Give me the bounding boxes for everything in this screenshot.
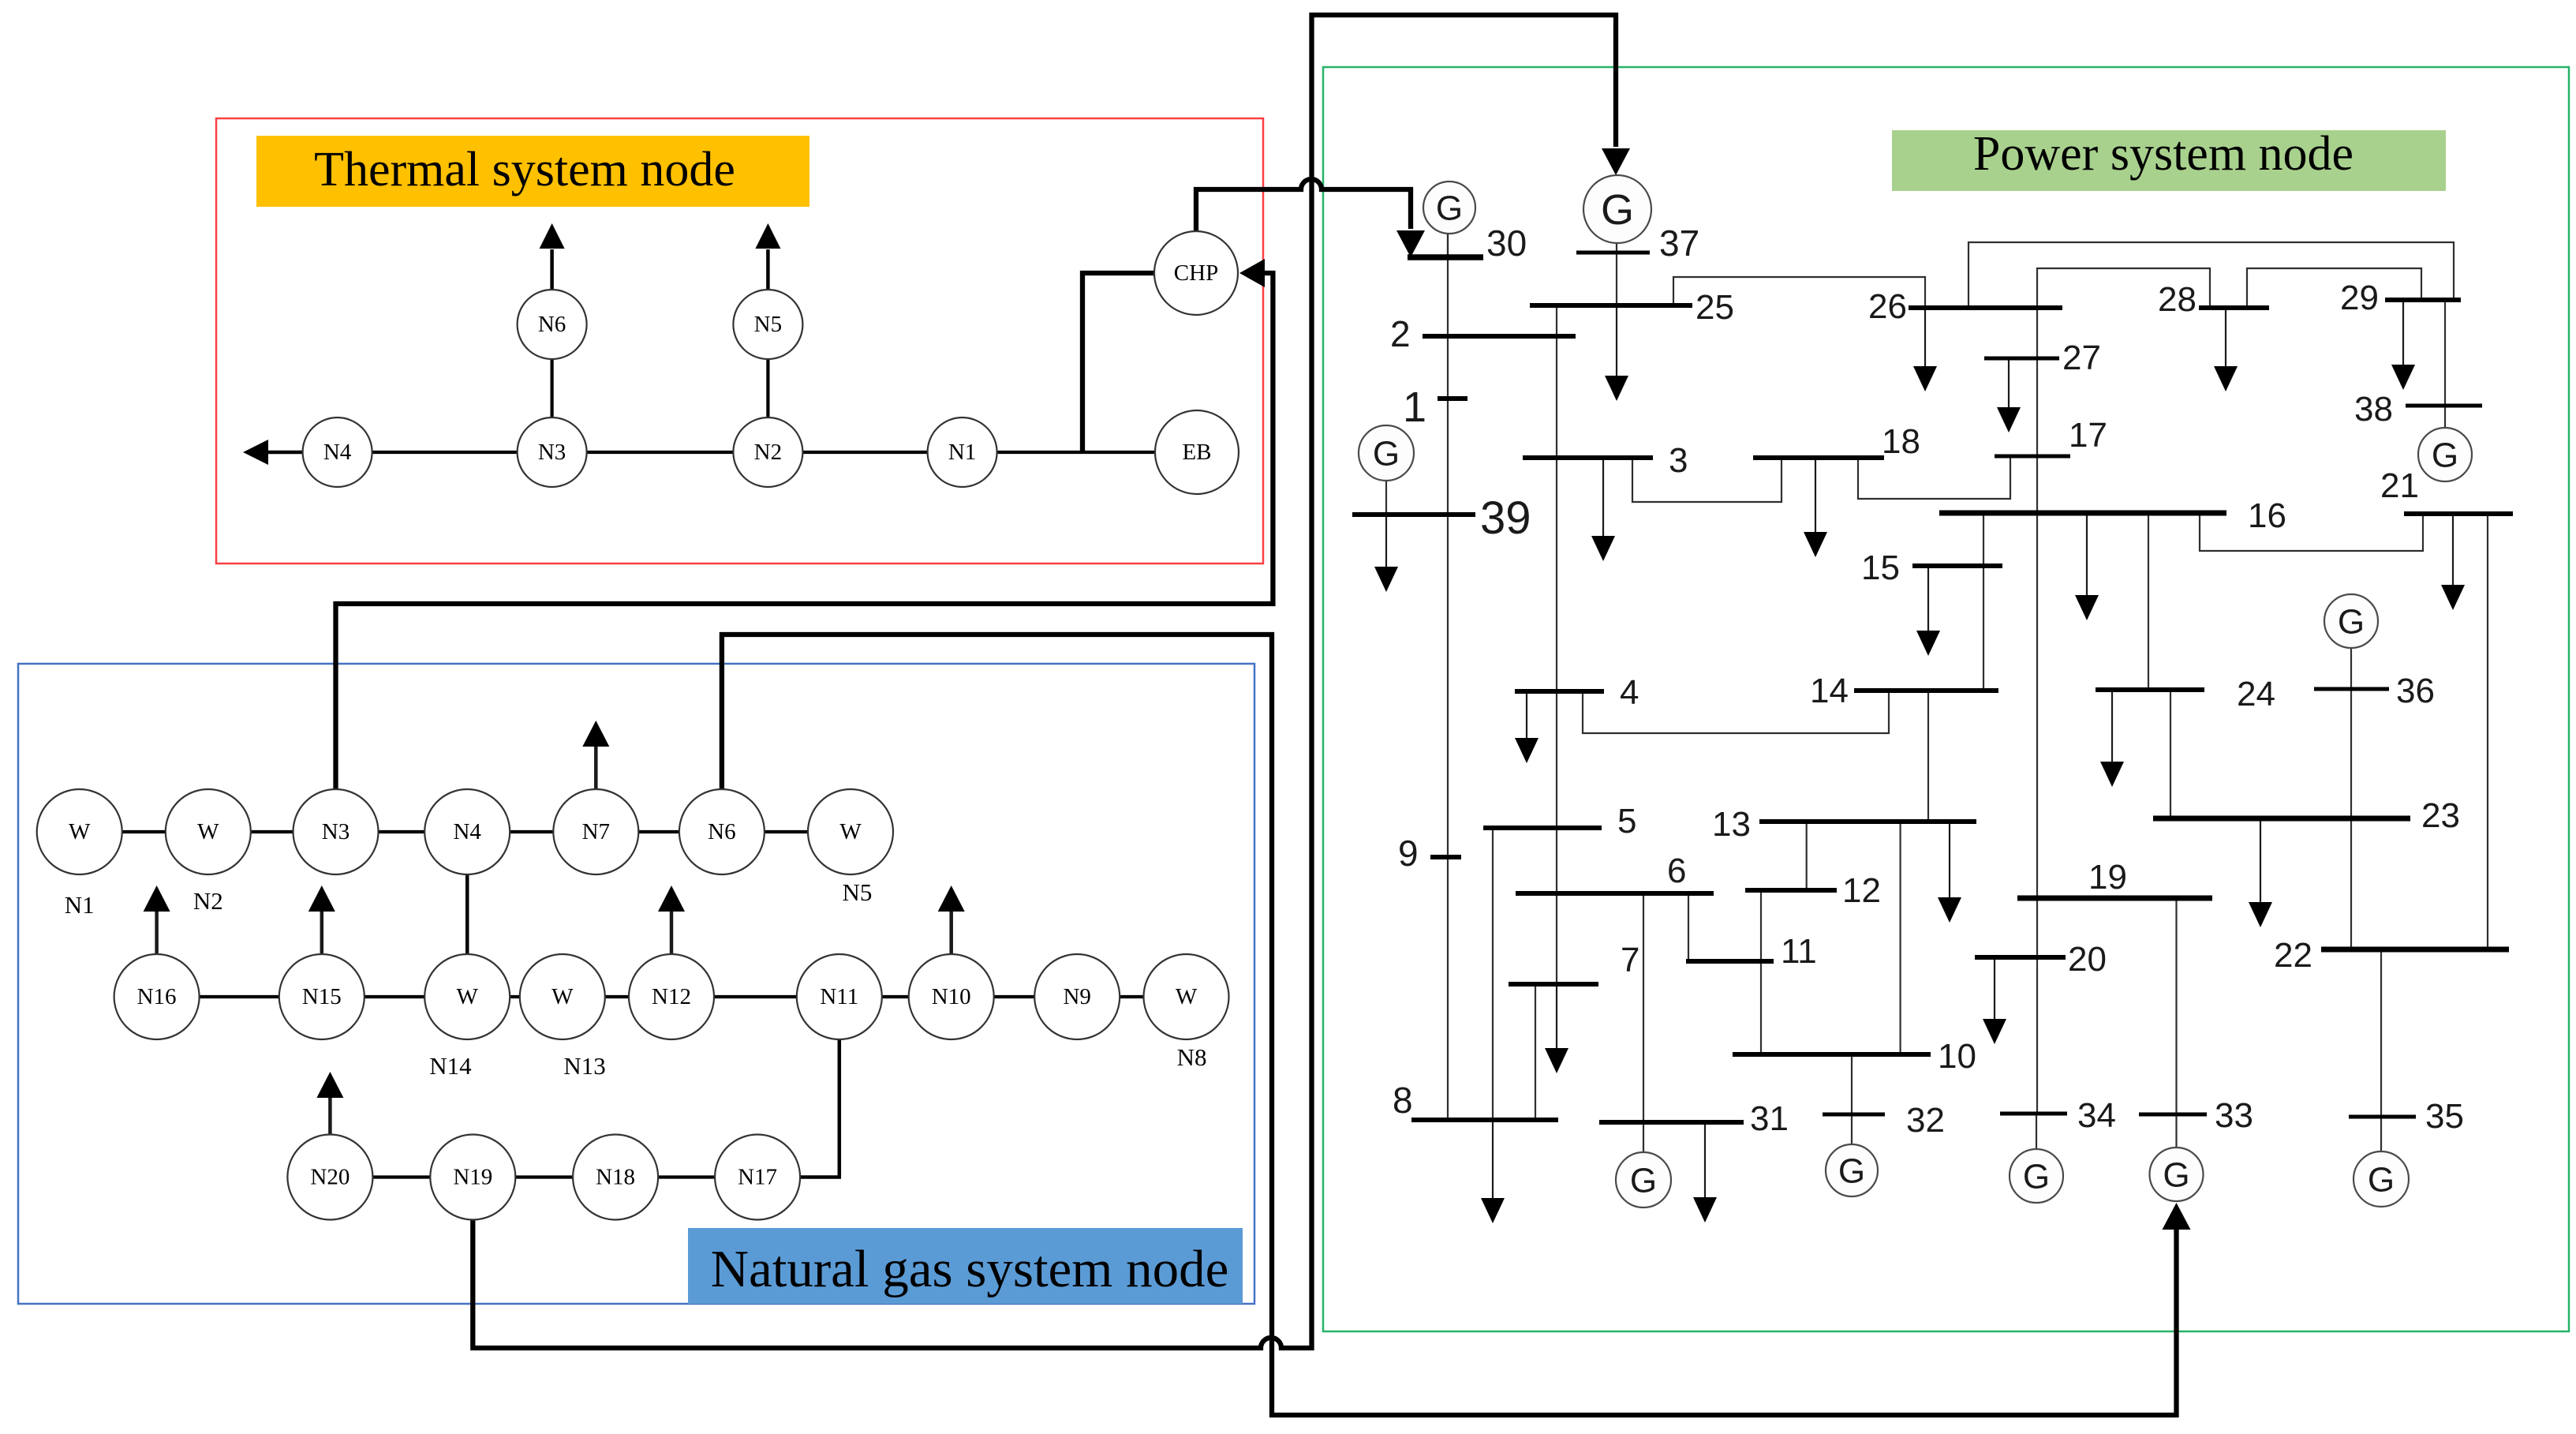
thermal system boundary box (red) xyxy=(216,118,1263,563)
gas node N10 xyxy=(909,954,994,1039)
svg-text:5: 5 xyxy=(1617,802,1636,841)
svg-text:21: 21 xyxy=(2380,466,2419,505)
svg-text:27: 27 xyxy=(2062,339,2101,377)
bus 8 bar xyxy=(1411,1118,1558,1122)
gas well W (N13) xyxy=(520,954,605,1039)
bus 27 bar xyxy=(1984,357,2059,361)
bus 39 bar xyxy=(1352,512,1475,517)
svg-text:31: 31 xyxy=(1750,1099,1789,1138)
svg-text:33: 33 xyxy=(2215,1096,2253,1135)
gas well W (N1) xyxy=(37,789,122,874)
svg-text:N4: N4 xyxy=(323,440,352,465)
svg-text:CHP: CHP xyxy=(1174,260,1218,286)
power line 23-24 vertical xyxy=(2170,690,2171,818)
svg-text:N9: N9 xyxy=(1063,984,1090,1009)
bus 6 bar xyxy=(1516,891,1714,896)
bus 16 bar xyxy=(1939,511,2226,516)
power line 28-29 loop xyxy=(2247,268,2421,308)
bus 37 bar xyxy=(1576,251,1650,255)
load arrow below bus 8 xyxy=(1492,1120,1494,1200)
bus 21 bar xyxy=(2404,511,2513,516)
thermal node N1 xyxy=(928,417,997,487)
gas pipe row3 N20-N19-N18-N17 xyxy=(330,1175,757,1178)
load arrow below bus 15 xyxy=(1927,566,1929,632)
svg-text:8: 8 xyxy=(1393,1080,1413,1121)
bus 30 bar xyxy=(1408,254,1483,260)
arrowhead into bus 30 xyxy=(1396,230,1425,257)
generator stub to G34 xyxy=(2036,1114,2037,1149)
thermal node N5 xyxy=(733,290,802,359)
bus 22 bar xyxy=(2321,947,2509,953)
bus 25 bar xyxy=(1530,303,1692,308)
gas node N9 xyxy=(1034,954,1120,1039)
svg-text:N7: N7 xyxy=(582,819,610,844)
power line 26-29 loop xyxy=(1968,242,2454,308)
svg-text:N16: N16 xyxy=(137,984,177,1009)
load arrow below bus 27 xyxy=(2008,358,2010,409)
bus 36 bar xyxy=(2314,687,2389,691)
generator G at bus 32 xyxy=(1826,1144,1878,1196)
power line 13-12 vertical xyxy=(1806,822,1808,890)
svg-text:9: 9 xyxy=(1398,833,1419,874)
svg-text:13: 13 xyxy=(1712,805,1751,844)
power line 22-35-G35 vertical xyxy=(2380,949,2382,1151)
heat output arrow left of N4 xyxy=(268,451,303,455)
gas node N12 xyxy=(629,954,714,1039)
power line 26-28 loop xyxy=(2037,268,2210,308)
load arrow below bus 3 xyxy=(1602,458,1604,537)
gas pipe row2 N16-N15-W-W-N12-N11-N10-N9-W xyxy=(157,995,1187,998)
bus 29 bar xyxy=(2385,298,2461,302)
power line 26-27-17-16-19-20-34 vertical xyxy=(2036,308,2038,1114)
svg-text:G: G xyxy=(1601,186,1634,234)
svg-text:N3: N3 xyxy=(322,819,350,844)
svg-text:N1: N1 xyxy=(948,440,976,465)
power line 16-21 loop xyxy=(2200,513,2423,551)
arrowhead into CHP xyxy=(1239,259,1265,287)
bus 26 bar xyxy=(1909,305,2062,310)
svg-text:25: 25 xyxy=(1696,288,1734,327)
svg-text:30: 30 xyxy=(1486,223,1527,264)
svg-text:G: G xyxy=(2163,1156,2189,1195)
bus 10 bar xyxy=(1733,1052,1931,1057)
svg-text:N2: N2 xyxy=(193,887,223,915)
bus 2 bar xyxy=(1423,334,1576,339)
gas demand arrow above N20 xyxy=(328,1096,332,1135)
bus 17 bar xyxy=(1995,455,2070,459)
load arrow below bus 25 xyxy=(1616,304,1617,377)
power line 3-18 loop xyxy=(1632,458,1782,502)
generator G at bus 31 xyxy=(1616,1152,1671,1207)
load arrow below bus 21 xyxy=(2452,514,2454,586)
svg-text:12: 12 xyxy=(1842,871,1881,910)
power line 25-2-3-4-5-6-7 vertical with load below 7 xyxy=(1556,304,1557,984)
load arrow below bus 16 xyxy=(2086,513,2088,597)
power line 10-32-G32 vertical xyxy=(1851,1054,1853,1144)
gas demand arrow above N15 xyxy=(320,910,324,954)
svg-text:N1: N1 xyxy=(65,891,95,919)
svg-text:7: 7 xyxy=(1621,941,1639,979)
load arrow below bus 20 xyxy=(1994,957,1995,1020)
thermal pipe N2-N5 xyxy=(766,360,769,417)
gas node N17 xyxy=(715,1135,800,1220)
electric boiler EB xyxy=(1155,410,1239,494)
load arrow below bus 24 xyxy=(2111,690,2113,763)
svg-text:36: 36 xyxy=(2396,672,2435,710)
thermal pipe N3-N6 xyxy=(550,360,553,417)
svg-text:34: 34 xyxy=(2077,1096,2116,1135)
bus 19 bar xyxy=(2017,896,2212,901)
load arrow below bus 23 xyxy=(2260,818,2261,904)
load arrow below bus 26 xyxy=(1924,308,1926,368)
svg-text:22: 22 xyxy=(2274,936,2312,975)
svg-text:G: G xyxy=(2368,1161,2395,1200)
bus 5 bar xyxy=(1483,826,1602,830)
svg-text:14: 14 xyxy=(1810,672,1849,710)
bus 1 bar xyxy=(1438,396,1467,401)
power system title label xyxy=(1892,130,2446,191)
svg-text:W: W xyxy=(457,984,479,1009)
thermal node N2 xyxy=(733,417,802,487)
svg-text:24: 24 xyxy=(2237,675,2275,713)
power line 7-8 vertical xyxy=(1535,984,1536,1120)
svg-text:10: 10 xyxy=(1938,1037,1976,1076)
svg-text:N18: N18 xyxy=(596,1165,635,1190)
generator G at bus 30 xyxy=(1423,182,1475,234)
bus 35 bar xyxy=(2349,1115,2416,1119)
load arrow below bus 4 xyxy=(1526,691,1527,739)
power line 37-25 with load below 25 xyxy=(1616,253,1617,304)
bus 9 bar xyxy=(1430,855,1461,859)
svg-text:Natural gas system node: Natural gas system node xyxy=(711,1240,1229,1298)
stub G30 to bus 30 xyxy=(1447,234,1449,257)
svg-text:N20: N20 xyxy=(310,1165,350,1190)
svg-text:N15: N15 xyxy=(302,984,342,1009)
gas pipe N4-W14 xyxy=(465,874,469,954)
svg-text:39: 39 xyxy=(1480,492,1531,544)
svg-text:N3: N3 xyxy=(538,440,566,465)
bus 15 bar xyxy=(1912,563,2002,568)
arrowhead into G33 xyxy=(2163,1203,2191,1230)
svg-text:N5: N5 xyxy=(754,312,782,337)
svg-text:3: 3 xyxy=(1669,441,1688,480)
power line G36-36-23-22 vertical xyxy=(2350,648,2352,949)
heat load arrow above N6 xyxy=(550,249,554,290)
svg-text:W: W xyxy=(69,819,91,844)
bus 3 bar xyxy=(1523,455,1653,460)
gas node N11 xyxy=(797,954,882,1039)
wire CHP electric output to bus 30 (with hop over gas line) xyxy=(1196,179,1411,233)
svg-text:W: W xyxy=(197,819,219,844)
load arrow below bus 31 xyxy=(1704,1122,1706,1199)
power system boundary box (green) xyxy=(1323,67,2569,1331)
svg-text:G: G xyxy=(2338,603,2365,642)
bus 18 bar xyxy=(1753,455,1884,460)
load arrow below bus 13 xyxy=(1949,822,1950,899)
power line 14-13 vertical xyxy=(1927,691,1929,822)
svg-text:29: 29 xyxy=(2340,279,2379,317)
power line 29-38-G38 vertical xyxy=(2444,300,2446,428)
power line G30-30-2-1-39-9-8 vertical xyxy=(1447,234,1449,1120)
gas node N6 xyxy=(679,789,765,874)
load arrow below bus 28 xyxy=(2225,308,2226,368)
svg-text:N11: N11 xyxy=(820,984,858,1009)
svg-text:N10: N10 xyxy=(932,984,971,1009)
svg-text:38: 38 xyxy=(2354,390,2393,429)
svg-text:G: G xyxy=(1838,1152,1865,1191)
svg-text:2: 2 xyxy=(1390,313,1411,354)
thermal node N6 xyxy=(518,290,587,359)
bus 31 bar xyxy=(1599,1120,1744,1125)
load arrow below bus 18 xyxy=(1815,458,1816,534)
thermal pipe N4-N3-N2-N1-EB xyxy=(302,451,1155,454)
power line 19-33 vertical xyxy=(2175,898,2177,1148)
svg-text:N8: N8 xyxy=(1177,1043,1207,1071)
bus 11 bar xyxy=(1686,959,1774,964)
gas node N3 xyxy=(293,789,379,874)
thermal system title label xyxy=(256,136,809,207)
gas pipe N17-N11 xyxy=(800,1039,839,1178)
svg-text:Power system node: Power system node xyxy=(1973,127,2354,181)
bus 23 bar xyxy=(2153,816,2410,822)
power line 21-22 vertical xyxy=(2487,514,2488,949)
wire gas N6 to generator G33 xyxy=(722,635,2177,1415)
svg-text:32: 32 xyxy=(1906,1101,1945,1140)
gas node N16 xyxy=(114,954,200,1039)
arrowhead into G37 xyxy=(1602,148,1630,175)
svg-text:W: W xyxy=(551,984,574,1009)
svg-text:18: 18 xyxy=(1882,422,1920,461)
svg-text:N14: N14 xyxy=(429,1052,472,1080)
svg-text:EB: EB xyxy=(1182,440,1211,465)
svg-text:28: 28 xyxy=(2158,280,2197,319)
svg-text:11: 11 xyxy=(1781,932,1817,971)
bus 24 bar xyxy=(2096,687,2204,692)
load arrow below bus 39 xyxy=(1385,515,1387,568)
svg-text:16: 16 xyxy=(2248,496,2286,535)
bus 14 bar xyxy=(1854,688,1998,693)
power line 12-11-10 vertical xyxy=(1760,890,1762,1054)
gas node N15 xyxy=(279,954,365,1039)
gas demand arrow above N10 xyxy=(949,910,953,954)
svg-text:W: W xyxy=(839,819,862,844)
svg-text:1: 1 xyxy=(1403,384,1426,431)
svg-text:G: G xyxy=(2023,1158,2050,1196)
thermal node N4 xyxy=(303,417,372,487)
gas node N19 xyxy=(430,1135,515,1220)
generator G at bus 38 xyxy=(2418,428,2472,481)
svg-text:N6: N6 xyxy=(708,819,735,844)
svg-text:G: G xyxy=(1630,1162,1657,1200)
power line 5-8 vertical with load below 8 xyxy=(1492,828,1494,1120)
heat load arrow above N5 xyxy=(766,249,770,290)
gas demand arrow above N12 xyxy=(670,910,674,954)
power line 16-24 vertical xyxy=(2148,513,2149,690)
gas demand arrow above N7 xyxy=(594,745,598,789)
svg-text:N12: N12 xyxy=(652,984,691,1009)
svg-text:37: 37 xyxy=(1659,223,1699,264)
load arrow below bus 29 xyxy=(2402,300,2404,366)
generator G at bus 35 xyxy=(2354,1151,2409,1207)
stub G39 to bus 39 xyxy=(1385,481,1387,515)
power line 25-26 xyxy=(1673,277,1925,308)
generator G at bus 37 xyxy=(1583,175,1651,243)
generator G at bus 36 xyxy=(2324,594,2378,648)
wire CHP to thermal line (left drop) xyxy=(1082,273,1155,451)
natural gas system title label xyxy=(688,1228,1243,1304)
generator G at bus 34 xyxy=(2010,1149,2063,1203)
bus 4 bar xyxy=(1515,689,1604,694)
gas well W (N2) xyxy=(166,789,251,874)
generator G at bus 33 xyxy=(2150,1148,2204,1201)
stub G37 to bus 37 xyxy=(1616,244,1617,253)
natural gas system boundary box (blue) xyxy=(18,664,1254,1304)
svg-text:N2: N2 xyxy=(754,440,782,465)
svg-text:35: 35 xyxy=(2425,1097,2464,1136)
power line 6-31-G31 vertical xyxy=(1643,893,1644,1152)
bus 7 bar xyxy=(1509,982,1598,987)
gas node N18 xyxy=(573,1135,658,1220)
svg-text:23: 23 xyxy=(2421,796,2460,835)
svg-text:20: 20 xyxy=(2068,940,2107,979)
power line 6-11 vertical xyxy=(1688,893,1689,961)
gas node N20 xyxy=(287,1135,372,1220)
svg-text:N17: N17 xyxy=(738,1165,777,1190)
svg-text:N4: N4 xyxy=(453,819,481,844)
wire gas N3 to CHP xyxy=(336,273,1273,790)
thermal node N3 xyxy=(518,417,587,487)
svg-text:W: W xyxy=(1176,984,1198,1009)
bus 12 bar xyxy=(1745,888,1837,893)
gas well W (N5) xyxy=(808,789,893,874)
svg-text:Thermal system node: Thermal system node xyxy=(314,143,735,197)
CHP unit xyxy=(1154,231,1238,315)
gas well W (N14) xyxy=(424,954,510,1039)
svg-text:N19: N19 xyxy=(453,1165,492,1190)
wire gas N19 to generator G37 (with hop over N3-G33 gas line) xyxy=(473,15,1616,1348)
svg-text:17: 17 xyxy=(2069,416,2107,455)
svg-text:G: G xyxy=(1436,189,1463,228)
svg-text:G: G xyxy=(1373,435,1400,474)
bus 13 bar xyxy=(1759,819,1976,824)
gas demand arrow above N16 xyxy=(155,910,159,954)
gas node N4 xyxy=(424,789,510,874)
gas well W (N8) xyxy=(1144,954,1229,1039)
bus 20 bar xyxy=(1975,955,2066,960)
svg-text:19: 19 xyxy=(2088,858,2127,897)
generator G at bus 39 xyxy=(1359,425,1414,481)
svg-text:4: 4 xyxy=(1620,673,1639,712)
bus 38 bar xyxy=(2406,404,2482,408)
svg-text:26: 26 xyxy=(1868,287,1907,326)
svg-text:N5: N5 xyxy=(843,878,873,906)
gas pipe row1 W-W-N3-N4-N7-N6-W xyxy=(80,830,851,833)
power line 13-10 vertical xyxy=(1900,822,1901,1054)
svg-text:15: 15 xyxy=(1861,549,1900,587)
bus 33 bar xyxy=(2139,1113,2207,1117)
bus 34 bar xyxy=(2000,1112,2067,1116)
power line 17-18 loop xyxy=(1858,456,2010,499)
svg-text:6: 6 xyxy=(1667,852,1686,890)
svg-text:N13: N13 xyxy=(563,1052,605,1080)
gas node N7 xyxy=(553,789,638,874)
bus 28 bar xyxy=(2199,305,2269,310)
svg-text:G: G xyxy=(2432,436,2458,475)
bus 32 bar xyxy=(1823,1113,1885,1117)
load arrow below bus 7 xyxy=(1556,984,1557,1050)
svg-text:N6: N6 xyxy=(538,312,566,337)
power line 16-15-14 vertical xyxy=(1983,513,1984,691)
power line 4-14 loop xyxy=(1583,691,1889,733)
